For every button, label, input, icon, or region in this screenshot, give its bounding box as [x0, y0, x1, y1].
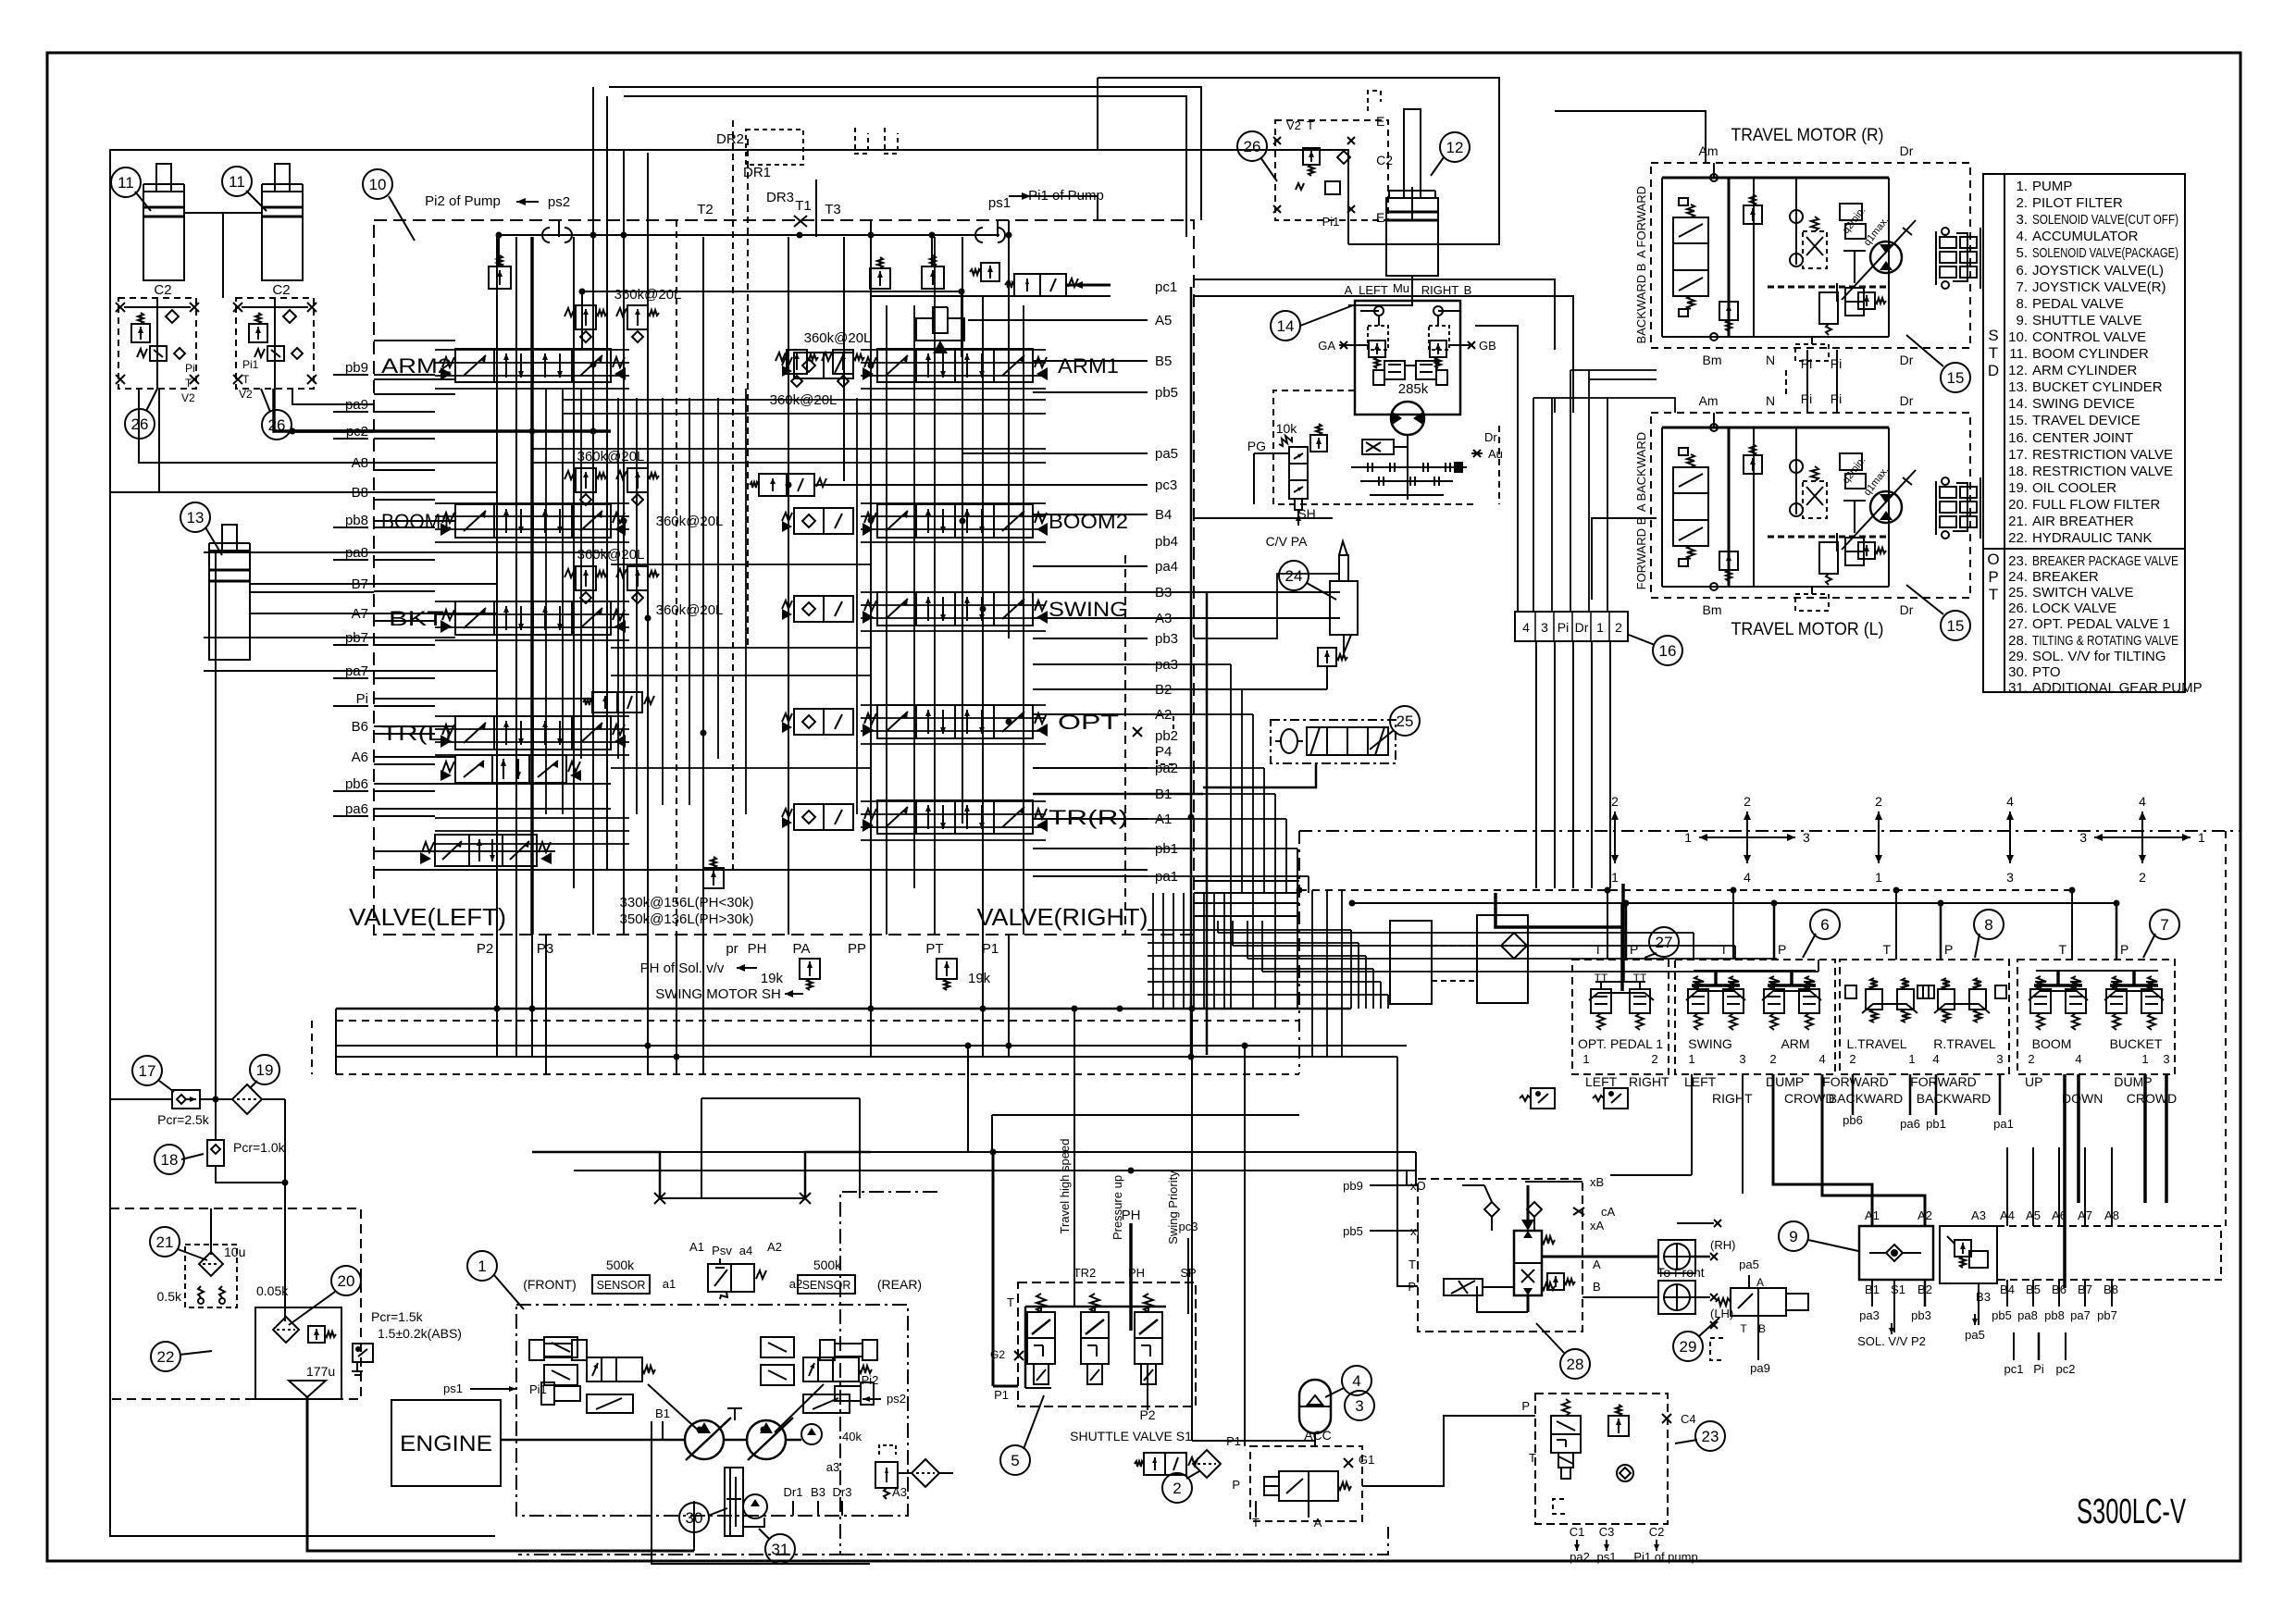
svg-text:11: 11	[118, 174, 134, 192]
svg-text:T: T	[1740, 1322, 1747, 1335]
joystick pedal blocks	[1572, 960, 1669, 1074]
svg-text:360k@20L: 360k@20L	[577, 547, 645, 563]
svg-text:BOOM CYLINDER: BOOM CYLINDER	[2032, 346, 2149, 362]
pump cross-over X line	[660, 1197, 805, 1199]
svg-text:29: 29	[1680, 1338, 1697, 1356]
wire interlock rects	[1390, 921, 1432, 1004]
svg-text:S1: S1	[1891, 1282, 1905, 1296]
svg-text:3: 3	[1541, 620, 1548, 635]
hydraulic tank 22	[110, 1208, 361, 1399]
travel motor (L) dashed block	[1651, 413, 1970, 598]
svg-text:DR2: DR2	[716, 131, 744, 147]
wire left trunk x233	[215, 552, 217, 1101]
wire dashed boundary right	[1299, 830, 2240, 832]
svg-text:1: 1	[1684, 830, 1692, 845]
svg-text:VALVE(RIGHT): VALVE(RIGHT)	[977, 903, 1148, 931]
valve section BOOM1	[455, 504, 611, 538]
dashed port strip	[1997, 1226, 2221, 1280]
svg-text:T: T	[1529, 1451, 1536, 1465]
G2 X mark	[1014, 1351, 1024, 1360]
svg-text:Dr1: Dr1	[784, 1485, 803, 1499]
rear pump regulator	[761, 1337, 794, 1357]
wire center drops to buses	[1230, 893, 1232, 1009]
wire motor R Am	[1555, 111, 1706, 163]
svg-text:ENGINE: ENGINE	[400, 1431, 492, 1456]
wire long bus D	[336, 1056, 1397, 1058]
wire weave verticals	[1311, 890, 1313, 1057]
svg-text:A FORWARD: A FORWARD	[1634, 186, 1648, 258]
wire bus risers right	[870, 935, 872, 1057]
tilting rotating valve 28	[1418, 1179, 1582, 1332]
svg-text:2: 2	[1615, 620, 1622, 635]
wire A ports verticals	[2006, 1147, 2008, 1226]
wire bus left ends	[335, 1009, 337, 1074]
svg-text:pr: pr	[726, 941, 738, 957]
parts list box	[1983, 174, 2185, 692]
svg-text:18: 18	[161, 1151, 179, 1169]
svg-text:16: 16	[1659, 642, 1677, 660]
svg-text:26: 26	[1244, 138, 1261, 155]
svg-text:P: P	[1778, 942, 1786, 957]
pilot relief cluster BOOM1 row	[576, 468, 596, 492]
wire joystick T/P drops	[1607, 890, 1608, 960]
svg-text:RIGHT: RIGHT	[1421, 283, 1459, 297]
engine box	[391, 1400, 501, 1486]
svg-text:3: 3	[2163, 1052, 2169, 1066]
wire pc1 pi pc2 drops	[2013, 1332, 2015, 1360]
svg-text:C2: C2	[1376, 153, 1393, 167]
svg-text:350k@136L(PH>30k): 350k@136L(PH>30k)	[620, 911, 754, 927]
pump drive shaft lines	[501, 1439, 685, 1442]
svg-text:17: 17	[139, 1062, 156, 1080]
main relief left	[498, 235, 500, 266]
svg-text:12.: 12.	[2008, 363, 2028, 378]
svg-text:19k: 19k	[761, 971, 784, 986]
wire restriction 18 drop	[215, 1101, 217, 1140]
wire 28 to P	[1397, 1057, 1418, 1286]
svg-text:14: 14	[1277, 317, 1295, 335]
swing motor	[1391, 402, 1424, 435]
valve section ARM1	[794, 353, 853, 378]
svg-text:ps1: ps1	[443, 1381, 463, 1395]
svg-text:P1: P1	[982, 941, 999, 957]
wire cv vertical trunks	[496, 237, 498, 935]
wire cooler line	[110, 1098, 172, 1100]
svg-text:Pcr=1.5k: Pcr=1.5k	[371, 1309, 424, 1324]
swing relief left	[1368, 326, 1388, 350]
svg-text:PEDAL VALVE: PEDAL VALVE	[2032, 296, 2124, 312]
svg-text:24.: 24.	[2008, 569, 2028, 585]
svg-text:ARM: ARM	[1781, 1036, 1809, 1051]
front pump regulator	[544, 1337, 577, 1357]
wire sol3 T A drops	[1255, 1501, 1257, 1518]
wire long bus B dashed	[336, 1020, 1299, 1022]
svg-text:24: 24	[1285, 567, 1303, 585]
svg-text:BUCKET CYLINDER: BUCKET CYLINDER	[2032, 379, 2163, 395]
wire tilt valve links	[1370, 1184, 1418, 1186]
svg-text:20: 20	[338, 1272, 355, 1290]
svg-text:PH: PH	[1122, 1208, 1141, 1223]
travel motor (R) dashed block	[1651, 163, 1970, 348]
svg-text:SOL. V/V for TILTING: SOL. V/V for TILTING	[2032, 649, 2166, 664]
svg-text:4.: 4.	[2016, 229, 2028, 244]
svg-text:a3: a3	[826, 1460, 839, 1474]
svg-text:HYDRAULIC TANK: HYDRAULIC TANK	[2032, 530, 2152, 546]
svg-text:17.: 17.	[2008, 447, 2028, 463]
pump regulator tilt links	[648, 1384, 701, 1432]
svg-text:Am: Am	[1699, 143, 1719, 158]
svg-text:TILTING & ROTATING VALVE: TILTING & ROTATING VALVE	[2032, 633, 2178, 649]
svg-text:pa5: pa5	[1155, 446, 1178, 462]
travel motor (R) gear reduction	[1942, 228, 1949, 235]
wire boom cylinders join	[184, 212, 262, 214]
svg-text:ps2: ps2	[887, 1392, 906, 1406]
svg-text:1: 1	[1611, 870, 1619, 885]
boom cylinder 11 (right)	[275, 164, 290, 192]
svg-text:14.: 14.	[2008, 396, 2028, 412]
pump assembly 1 boundary	[516, 1305, 908, 1516]
svg-text:19k: 19k	[968, 971, 991, 986]
svg-text:TR2: TR2	[1074, 1266, 1097, 1280]
wire swing device to motors	[1475, 326, 1518, 612]
wire cv extra horizontals left col	[435, 349, 629, 351]
valve(left) lower spool TR(L) extra	[455, 755, 566, 783]
svg-text:B1: B1	[655, 1406, 670, 1420]
svg-text:ACCUMULATOR: ACCUMULATOR	[2032, 229, 2139, 244]
svg-text:OPT. PEDAL VALVE 1: OPT. PEDAL VALVE 1	[2032, 616, 2170, 632]
svg-text:A3: A3	[1971, 1208, 1986, 1222]
svg-text:xA: xA	[1590, 1219, 1605, 1233]
control valve 10 dashed boundary	[374, 220, 1194, 935]
svg-text:OIL COOLER: OIL COOLER	[2032, 480, 2116, 496]
svg-text:3.: 3.	[2016, 212, 2028, 228]
svg-text:A1: A1	[689, 1240, 704, 1254]
tilt valve internals	[1484, 1202, 1499, 1217]
swing makeup circles	[1374, 306, 1384, 316]
svg-text:22.: 22.	[2008, 530, 2028, 546]
svg-text:A: A	[1345, 283, 1353, 297]
svg-text:A2: A2	[767, 1240, 782, 1254]
travel motor (L) counterbalance reliefs	[1744, 455, 1762, 474]
tank drain bold line	[307, 1397, 694, 1551]
svg-text:AIR BREATHER: AIR BREATHER	[2032, 514, 2134, 529]
wire right comb to buses	[1152, 893, 1154, 1009]
svg-text:O: O	[1987, 551, 1999, 568]
svg-text:T: T	[1007, 1295, 1014, 1309]
svg-text:19.: 19.	[2008, 480, 2028, 496]
wire travel outputs	[1852, 1074, 1855, 1115]
svg-text:Pi1 of pump: Pi1 of pump	[1633, 1550, 1697, 1564]
valve section TR(L)	[455, 716, 611, 750]
wire long bus A	[336, 1008, 1351, 1010]
svg-text:T1: T1	[795, 198, 812, 214]
svg-text:28: 28	[1567, 1356, 1584, 1373]
svg-text:C4: C4	[1681, 1412, 1696, 1426]
relief near pc1	[870, 268, 890, 289]
travel motor (L) 2-speed valve	[1803, 481, 1827, 518]
svg-text:27: 27	[1656, 934, 1673, 951]
svg-text:FULL FLOW FILTER: FULL FLOW FILTER	[2032, 497, 2161, 513]
svg-text:pc3: pc3	[1179, 1220, 1198, 1233]
svg-text:UP: UP	[2025, 1074, 2042, 1089]
svg-text:V2: V2	[239, 388, 253, 401]
svg-text:A BACKWARD: A BACKWARD	[1634, 432, 1648, 512]
wire swing feeds	[1194, 574, 1340, 638]
travel motor (L) Pi port box	[1795, 594, 1829, 611]
svg-text:1: 1	[1582, 1052, 1589, 1066]
wire T bus dashed	[1299, 889, 2072, 891]
X mark T1	[794, 216, 807, 227]
svg-text:360k@20L: 360k@20L	[804, 330, 872, 346]
svg-text:a4: a4	[739, 1244, 752, 1258]
wire shuttle to labels	[1871, 1280, 1873, 1307]
svg-text:4: 4	[1352, 1372, 1360, 1390]
wire air breather drop	[210, 1208, 212, 1255]
svg-text:D: D	[1988, 362, 1999, 379]
svg-text:LEFT: LEFT	[1684, 1074, 1717, 1089]
svg-text:PILOT FILTER: PILOT FILTER	[2032, 195, 2123, 211]
svg-text:pb5: pb5	[1343, 1224, 1363, 1238]
svg-text:10.: 10.	[2008, 329, 2028, 345]
svg-text:pb1: pb1	[1926, 1117, 1946, 1131]
svg-text:11: 11	[229, 173, 245, 191]
svg-text:BREAKER PACKAGE VALVE: BREAKER PACKAGE VALVE	[2032, 553, 2178, 569]
wire to acc/solenoid 3	[1191, 1009, 1193, 1441]
19k relief PT	[937, 959, 957, 979]
svg-text:P: P	[1232, 1478, 1240, 1492]
svg-text:P2: P2	[477, 941, 493, 957]
svg-text:2: 2	[2139, 870, 2146, 885]
wire Pi1 pump line	[1031, 196, 1098, 220]
svg-text:SHUTTLE VALVE: SHUTTLE VALVE	[2032, 313, 2142, 328]
switch valve 25	[1390, 706, 1420, 736]
svg-text:TR(R): TR(R)	[1049, 806, 1128, 829]
travel motor (R) check valves	[1790, 210, 1803, 223]
svg-text:pc3: pc3	[1155, 477, 1177, 493]
svg-text:2: 2	[1849, 1052, 1855, 1066]
svg-text:Pi2: Pi2	[862, 1373, 879, 1387]
svg-text:23.: 23.	[2008, 553, 2028, 569]
sol valve 29 tilting	[1673, 1332, 1703, 1361]
To Front orifices	[1658, 1240, 1695, 1273]
svg-text:B: B	[1758, 1322, 1766, 1335]
travel motor (R) servo piston	[1854, 251, 1855, 283]
main relief right	[931, 235, 933, 266]
svg-text:Bm: Bm	[1703, 353, 1722, 367]
svg-text:177u: 177u	[306, 1364, 335, 1379]
svg-text:1: 1	[1875, 870, 1882, 885]
svg-text:RESTRICTION VALVE: RESTRICTION VALVE	[2032, 447, 2173, 463]
lock valve 26 (left)	[118, 298, 196, 389]
svg-text:5.: 5.	[2016, 245, 2028, 261]
svg-text:2: 2	[2028, 1052, 2034, 1066]
svg-text:T: T	[1252, 1516, 1260, 1530]
svg-text:P: P	[1630, 942, 1638, 957]
svg-text:C2: C2	[272, 282, 290, 298]
svg-text:8.: 8.	[2016, 296, 2028, 312]
svg-text:RIGHT: RIGHT	[1712, 1091, 1753, 1106]
svg-text:CROWD: CROWD	[1784, 1091, 1834, 1106]
breaker package valve 23	[1535, 1394, 1668, 1524]
svg-text:15: 15	[1947, 369, 1965, 387]
svg-text:11.: 11.	[2009, 346, 2028, 362]
swing gear train	[1351, 466, 1467, 468]
wire cv right col horizontals	[968, 319, 1148, 321]
wire filter diamond mid	[1501, 933, 1527, 959]
solenoid valve pa5/pc3 row	[759, 474, 814, 496]
PTO 30	[725, 1468, 743, 1536]
pilot gear pump 40k	[801, 1424, 822, 1444]
wire opt pedal P bold	[1621, 884, 1625, 981]
svg-text:JOYSTICK VALVE(L): JOYSTICK VALVE(L)	[2032, 263, 2164, 279]
svg-text:20.: 20.	[2008, 497, 2028, 513]
svg-text:T: T	[2058, 942, 2066, 957]
svg-text:PH of Sol. v/v: PH of Sol. v/v	[640, 960, 725, 976]
wire ps2 drop	[558, 220, 560, 237]
wire long bus E dashed	[336, 1073, 1299, 1075]
wire to breaker valve	[1362, 1416, 1535, 1486]
solenoid valve TR2	[1036, 1294, 1046, 1312]
solenoid valve near pc1/A5	[1014, 274, 1066, 296]
svg-text:T: T	[242, 373, 250, 386]
wire lock valves to valve ports	[139, 389, 374, 463]
svg-text:4: 4	[2075, 1052, 2081, 1066]
wire package feeds	[967, 1046, 969, 1152]
upper assembly enclosure	[1098, 78, 1499, 244]
svg-text:GB: GB	[1479, 339, 1496, 353]
svg-text:xB: xB	[1590, 1175, 1604, 1189]
svg-text:A5: A5	[1155, 313, 1172, 328]
package P2 line	[1147, 1364, 1148, 1410]
svg-text:2: 2	[1611, 794, 1619, 809]
svg-text:31: 31	[772, 1541, 789, 1558]
svg-text:500k: 500k	[813, 1258, 842, 1272]
svg-text:SWING MOTOR SH: SWING MOTOR SH	[655, 986, 781, 1002]
svg-text:P1: P1	[994, 1388, 1009, 1402]
wire cv dashed right boundary jog	[1124, 555, 1126, 935]
svg-text:19: 19	[256, 1061, 274, 1079]
valve section OPT	[794, 709, 853, 735]
svg-text:27.: 27.	[2008, 616, 2028, 632]
svg-text:cA: cA	[1601, 1205, 1616, 1219]
svg-text:PA: PA	[793, 941, 811, 957]
svg-text:4: 4	[2139, 794, 2146, 809]
svg-text:Pi2 of Pump: Pi2 of Pump	[425, 193, 501, 209]
travel motor (L) check valves	[1790, 460, 1803, 473]
svg-text:Dr: Dr	[1900, 602, 1914, 617]
svg-text:330k@156L(PH<30k): 330k@156L(PH<30k)	[620, 895, 754, 911]
svg-text:TRAVEL DEVICE: TRAVEL DEVICE	[2032, 413, 2141, 428]
svg-text:ps1: ps1	[1597, 1550, 1617, 1564]
svg-text:pa5: pa5	[1739, 1258, 1759, 1271]
svg-text:2: 2	[1875, 794, 1882, 809]
svg-text:6.: 6.	[2016, 263, 2028, 279]
svg-text:FORWARD: FORWARD	[1910, 1074, 1977, 1089]
svg-text:PTO: PTO	[2032, 664, 2061, 680]
svg-text:3: 3	[2079, 830, 2087, 845]
svg-text:1: 1	[1596, 620, 1604, 635]
accumulator 4	[1299, 1380, 1331, 1433]
swing device 14 main box	[1355, 301, 1460, 415]
svg-text:SENSOR: SENSOR	[597, 1279, 646, 1292]
travel motor (R) motor symbol	[1870, 242, 1902, 273]
svg-text:285k: 285k	[1398, 381, 1429, 397]
svg-text:12: 12	[1446, 139, 1464, 156]
left enclosure box	[110, 150, 1098, 1536]
svg-text:C2: C2	[1649, 1525, 1665, 1539]
svg-text:1: 1	[1908, 1052, 1915, 1066]
svg-text:T: T	[1719, 942, 1728, 957]
svg-text:25.: 25.	[2008, 585, 2028, 601]
valve section ARM2	[455, 349, 611, 382]
svg-text:21: 21	[156, 1233, 174, 1251]
svg-text:N: N	[1766, 393, 1775, 408]
wire cv extra verticals	[545, 389, 547, 814]
wire dashed vertical far right	[2225, 831, 2227, 1226]
svg-text:Pi1: Pi1	[242, 358, 259, 371]
svg-text:PG: PG	[1247, 439, 1266, 453]
svg-text:pa7: pa7	[2070, 1308, 2091, 1322]
svg-text:Dr: Dr	[1900, 143, 1914, 158]
swing GA GB line	[1339, 344, 1368, 346]
boom cylinder 11 (left)	[156, 164, 171, 192]
svg-text:B: B	[1464, 283, 1472, 297]
svg-text:pb9: pb9	[1343, 1179, 1363, 1193]
svg-text:Dr: Dr	[1484, 430, 1497, 444]
svg-text:RIGHT: RIGHT	[1629, 1074, 1669, 1089]
svg-text:PP: PP	[848, 941, 866, 957]
svg-text:pa9: pa9	[1750, 1361, 1770, 1375]
svg-text:(REAR): (REAR)	[877, 1277, 922, 1292]
svg-text:pb8: pb8	[2044, 1308, 2065, 1322]
wire cv extra horizontals right col	[861, 349, 1046, 351]
svg-text:G1: G1	[1359, 1453, 1374, 1467]
svg-text:4: 4	[1818, 1052, 1825, 1066]
dashed staple breaker	[1553, 1499, 1566, 1514]
svg-text:pb5: pb5	[1992, 1308, 2012, 1322]
svg-text:BREAKER: BREAKER	[2032, 569, 2099, 585]
svg-text:pb4: pb4	[1155, 534, 1178, 550]
svg-text:pb3: pb3	[1911, 1308, 1931, 1322]
svg-text:500k: 500k	[606, 1258, 635, 1272]
wire sol29 drops	[1748, 1275, 1750, 1288]
svg-text:pa3: pa3	[1859, 1308, 1880, 1322]
svg-text:pa6: pa6	[345, 801, 368, 817]
shuttle block 9	[1779, 1221, 1808, 1251]
svg-text:To Front: To Front	[1657, 1265, 1704, 1280]
junction dots	[496, 232, 502, 238]
Psv solenoid valve	[708, 1264, 754, 1292]
bucket cylinder 13	[180, 502, 210, 532]
svg-text:1.: 1.	[2016, 179, 2028, 194]
wire boom bucket outputs bold	[2063, 1074, 2066, 1288]
lock valve 26 (right)	[236, 298, 314, 389]
wire cv dashed verticals DR	[732, 120, 734, 870]
solenoid valve Pi row	[592, 692, 642, 712]
solenoid cut-off valve 3	[1250, 1446, 1362, 1521]
pilot relief cluster ARM1 row	[787, 350, 807, 374]
svg-text:pa4: pa4	[1155, 559, 1178, 575]
wire bold pilot bundle	[1496, 893, 1623, 927]
travel motor (L) motor symbol	[1870, 491, 1902, 523]
wire xB link	[1525, 1181, 1582, 1183]
svg-text:pb9: pb9	[345, 360, 368, 376]
svg-text:4: 4	[1932, 1052, 1939, 1066]
svg-text:15.: 15.	[2008, 413, 2028, 428]
direction cross arrows	[1614, 811, 1616, 863]
wire mid lines above pump	[701, 1097, 860, 1099]
svg-text:Am: Am	[1699, 393, 1719, 408]
